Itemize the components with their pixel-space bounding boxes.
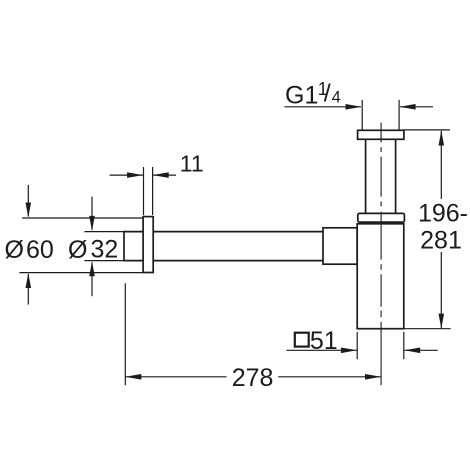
svg-text:196-: 196- <box>418 200 468 228</box>
svg-text:11: 11 <box>180 151 204 177</box>
svg-text:281: 281 <box>420 227 462 255</box>
svg-text:32: 32 <box>91 236 119 264</box>
svg-text:51: 51 <box>310 327 338 355</box>
svg-text:278: 278 <box>232 364 274 392</box>
svg-text:60: 60 <box>26 236 54 264</box>
svg-text:Ø: Ø <box>5 236 24 264</box>
svg-text:G1: G1 <box>285 82 318 110</box>
svg-text:/: / <box>324 79 331 107</box>
svg-text:Ø: Ø <box>68 236 87 264</box>
svg-text:4: 4 <box>332 89 341 107</box>
